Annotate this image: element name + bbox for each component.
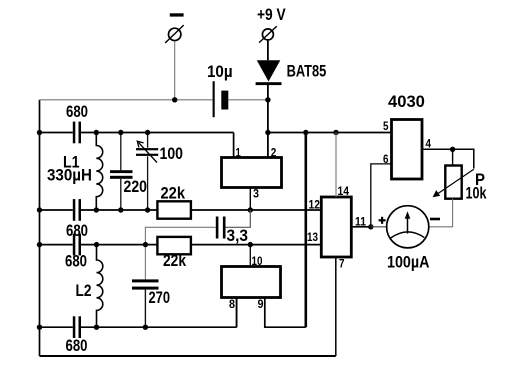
wire bottom rail	[40, 355, 336, 357]
svg-text:22k: 22k	[161, 185, 186, 203]
svg-text:14: 14	[338, 184, 350, 198]
svg-text:10k: 10k	[466, 185, 488, 203]
node dots row3	[37, 207, 42, 212]
wire row1 left segment	[40, 99, 213, 101]
gate IC1a (pins 1,2,3)	[222, 146, 282, 201]
svg-text:12: 12	[309, 198, 321, 212]
wire pin9 to riser	[265, 298, 306, 328]
wire row5	[40, 298, 237, 328]
resistor 22k upper	[157, 185, 191, 219]
svg-text:680: 680	[65, 253, 87, 271]
inductor L2	[76, 245, 103, 328]
svg-text:13: 13	[307, 230, 318, 244]
svg-text:10µ: 10µ	[207, 63, 233, 81]
wire thick riser	[304, 133, 307, 328]
svg-text:5: 5	[383, 119, 389, 133]
wire row2 right segment	[268, 132, 392, 134]
svg-text:9: 9	[258, 297, 264, 311]
wire pin4 path	[422, 149, 474, 168]
diode BAT85	[256, 60, 327, 85]
wire junction to meter plus terminal	[371, 226, 387, 228]
svg-text:270: 270	[149, 289, 171, 307]
node junction row1/terminal	[172, 97, 177, 102]
svg-text:220: 220	[124, 178, 148, 196]
svg-text:22k: 22k	[163, 252, 187, 270]
node dots row5	[37, 325, 42, 330]
terminal +9V	[257, 6, 286, 43]
capacitor 270	[132, 245, 170, 328]
svg-text:3,3: 3,3	[227, 227, 249, 245]
capacitor 220	[110, 133, 147, 211]
terminal minus	[165, 13, 184, 100]
inductor L1	[47, 132, 103, 210]
svg-text:4: 4	[426, 137, 432, 151]
svg-text:2: 2	[271, 146, 277, 160]
potentiometer P 10k	[429, 149, 487, 227]
svg-text:3: 3	[253, 187, 259, 201]
wire left rail	[39, 100, 41, 356]
wire diode to row2 and pin2	[267, 85, 269, 158]
svg-text:680: 680	[66, 222, 88, 240]
svg-text:1: 1	[236, 146, 241, 160]
svg-text:680: 680	[66, 337, 88, 355]
capacitor 680 row2	[66, 103, 88, 143]
meter M1 100µA	[379, 206, 440, 272]
wire row4	[40, 244, 322, 246]
svg-text:10: 10	[252, 254, 263, 268]
wire pin14 drop	[335, 133, 337, 198]
gate IC1d 4030 (pins 5,6,4)	[383, 93, 431, 179]
svg-text:4030: 4030	[388, 93, 425, 111]
svg-text:+9 V: +9 V	[257, 6, 286, 24]
wire row1 right segment	[228, 99, 268, 101]
node dots row4	[37, 242, 42, 247]
svg-text:7: 7	[339, 257, 345, 271]
wire row3	[40, 209, 322, 211]
node junction pin11/pin6	[368, 224, 373, 229]
node junction pin4/pot	[450, 147, 455, 152]
svg-text:BAT85: BAT85	[287, 62, 327, 80]
wire row2 left segment	[40, 133, 234, 158]
svg-text:330µH: 330µH	[47, 167, 92, 185]
gate IC1b (pins 10,8,9)	[222, 254, 281, 311]
capacitor 680 row4	[65, 234, 87, 271]
svg-text:8: 8	[229, 297, 235, 311]
capacitor 3,3	[145, 210, 250, 267]
svg-text:100µA: 100µA	[387, 254, 430, 272]
capacitor 10µ	[207, 63, 233, 117]
wire pin6 path	[371, 164, 392, 227]
node junction diode/row1	[265, 97, 270, 102]
wire pin8 drop	[236, 298, 238, 328]
svg-text:100: 100	[160, 145, 184, 163]
gate IC1c (pins 12,13,11,14,7)	[307, 184, 366, 271]
wire pin7 drop	[335, 257, 337, 356]
wire pin3 drop	[249, 188, 251, 211]
capacitor 680 row3	[66, 199, 88, 240]
trimmer capacitor 100	[136, 133, 183, 211]
node dots row2	[37, 130, 42, 135]
svg-text:L2: L2	[76, 282, 92, 300]
resistor 22k lower	[157, 237, 191, 270]
wire terminal to diode	[267, 40, 269, 60]
capacitor 680 row5	[66, 316, 88, 355]
svg-text:680: 680	[66, 103, 88, 121]
wire pin11 to meter	[351, 226, 371, 228]
